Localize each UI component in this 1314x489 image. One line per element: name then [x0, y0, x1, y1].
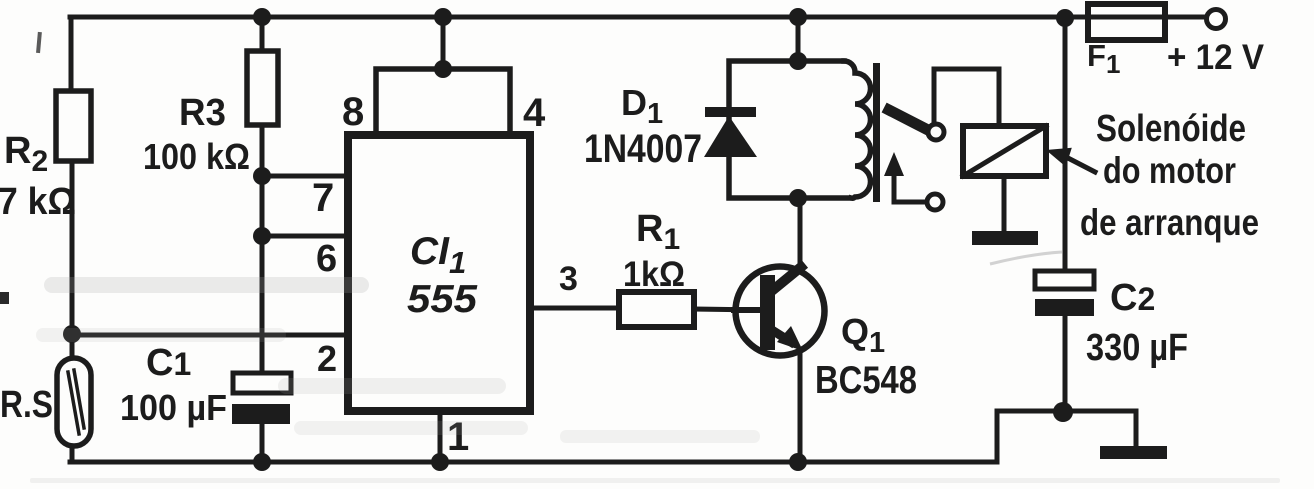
- wire pin6: [262, 234, 352, 239]
- terminal +12V: [1207, 10, 1226, 29]
- wire bottom rail: [70, 460, 997, 465]
- resistor R2: [56, 91, 91, 161]
- relay plunger arrow: [884, 152, 904, 176]
- svg-text:de arranque: de arranque: [1080, 202, 1259, 243]
- svg-text:100 µF: 100 µF: [120, 387, 227, 428]
- node loop bottom: [789, 189, 807, 207]
- svg-text:1N4007: 1N4007: [584, 127, 702, 171]
- svg-text:C2: C2: [1110, 277, 1155, 319]
- svg-text:555: 555: [407, 278, 478, 321]
- wire emitter down: [798, 352, 803, 462]
- wire bottom right step: [997, 411, 1136, 462]
- wire right vertical: [1063, 17, 1068, 271]
- wire contact to solenoid: [934, 69, 999, 127]
- svg-text:4: 4: [523, 91, 546, 135]
- sensor R.S internal contacts: [68, 370, 84, 434]
- node right rail: [1056, 9, 1074, 27]
- svg-text:100 kΩ: 100 kΩ: [143, 136, 250, 177]
- wire R3 bottom to C1: [260, 125, 265, 374]
- node junction left: [63, 325, 81, 343]
- wire top rail: [70, 15, 1086, 20]
- svg-text:+ 12 V: + 12 V: [1167, 38, 1265, 77]
- svg-text:do motor: do motor: [1103, 150, 1236, 191]
- relay contact upper: [928, 124, 944, 140]
- svg-text:1kΩ: 1kΩ: [623, 255, 685, 294]
- wire lower contact: [894, 170, 926, 202]
- wire pin3: [530, 306, 619, 311]
- wire to R3: [260, 17, 265, 53]
- ground main: [1100, 446, 1167, 459]
- node bottom right: [1053, 402, 1073, 422]
- relay coil K1: [844, 61, 871, 198]
- node loop top: [789, 52, 807, 70]
- wire bracket stub: [441, 17, 446, 69]
- solenoid box: [963, 126, 1046, 176]
- node top rail D1: [789, 8, 807, 26]
- wire solenoid to ground: [1002, 176, 1007, 231]
- wire rail to loop: [796, 17, 801, 61]
- node emitter rail: [789, 453, 807, 471]
- wire left drop to R2: [69, 17, 74, 93]
- svg-text:R3: R3: [179, 92, 226, 134]
- relay contact lower: [927, 194, 943, 210]
- svg-text:6: 6: [316, 238, 337, 280]
- svg-text:7 kΩ: 7 kΩ: [0, 181, 76, 223]
- node pin1 rail: [431, 453, 449, 471]
- scan artifacts: [0, 32, 42, 304]
- capacitor C1: [233, 373, 291, 393]
- wire R2 bottom to node: [70, 161, 75, 360]
- resistor R1: [619, 292, 694, 327]
- ground solenoid: [972, 231, 1038, 245]
- svg-text:3: 3: [559, 260, 578, 298]
- svg-text:Solenóide: Solenóide: [1096, 108, 1246, 150]
- svg-text:BC548: BC548: [815, 359, 917, 402]
- svg-text:R.S: R.S: [0, 384, 53, 426]
- fuse F1: [1088, 4, 1165, 40]
- node R3 top: [253, 8, 271, 26]
- node pin7 branch: [253, 167, 271, 185]
- resistor R3: [247, 51, 278, 125]
- IC CI1 555: [348, 135, 530, 411]
- svg-text:2: 2: [317, 338, 337, 379]
- wire C2 down: [1063, 316, 1068, 412]
- transistor Q1: [736, 267, 825, 356]
- pointer arrow to solenoid: [1066, 157, 1095, 172]
- wire bracket: [376, 69, 510, 135]
- node pin6 branch: [253, 227, 271, 245]
- svg-text:8: 8: [342, 90, 364, 134]
- wire C1 to rail: [260, 424, 265, 462]
- wire R.S bottom: [70, 446, 75, 462]
- sensor R.S: [57, 358, 91, 446]
- node C1 rail: [253, 453, 271, 471]
- svg-text:7: 7: [312, 176, 334, 220]
- svg-text:C1: C1: [146, 342, 191, 384]
- wire pin1: [438, 411, 443, 462]
- relay core: [873, 63, 880, 202]
- wire pin2 horizontal: [72, 333, 352, 338]
- node bracket: [434, 60, 452, 78]
- wire R1 to Q1 base: [694, 309, 760, 310]
- wire collector up: [798, 200, 803, 268]
- wire D1 relay loop: [729, 61, 848, 198]
- diode D1: [705, 107, 756, 117]
- capacitor C2: [1035, 271, 1094, 289]
- wire pin7: [262, 174, 352, 179]
- svg-text:330 µF: 330 µF: [1086, 327, 1188, 369]
- node bracket top rail: [434, 8, 452, 26]
- relay switch arm: [889, 110, 928, 130]
